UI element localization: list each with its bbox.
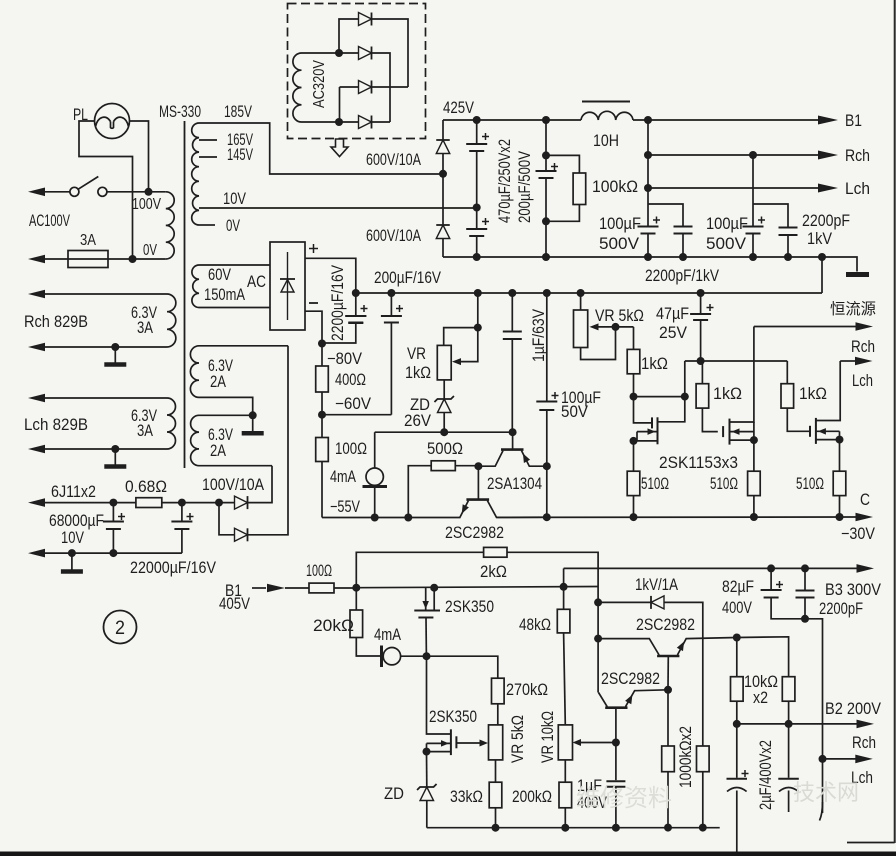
node base/emitter row <box>664 686 672 694</box>
svg-text:Rch: Rch <box>851 338 875 356</box>
svg-text:3A: 3A <box>137 422 153 440</box>
label 4mA (upper) <box>330 468 356 486</box>
capacitor 47uF/25V <box>690 293 713 361</box>
label Lch (bottom) <box>851 769 873 787</box>
capacitor 200uF/16V <box>381 293 403 415</box>
label B2 200V <box>825 700 881 718</box>
wire 10V tap to capacitor midpoint <box>199 207 477 209</box>
ground Rch heater <box>104 347 126 365</box>
wiper VR1k <box>452 328 478 366</box>
label 0V (primary) <box>143 242 157 259</box>
svg-text:Rch: Rch <box>852 734 876 752</box>
capacitor 100uF/50V <box>536 293 558 517</box>
label 185V <box>224 103 252 121</box>
svg-text:2SK350: 2SK350 <box>429 707 477 726</box>
node FET1 gate node <box>630 393 638 401</box>
potentiometer VR 1k <box>437 345 451 380</box>
label 0.68R <box>125 478 167 496</box>
wire 1kV/1A to 1000k <box>664 602 703 746</box>
label 165V <box>227 131 253 149</box>
label 48k <box>519 616 551 634</box>
wire 6.3V2A-1 bottom tap <box>199 397 253 415</box>
arrow 6J11 return rail <box>28 549 182 558</box>
svg-text:145V: 145V <box>227 146 253 164</box>
svg-text:1kV: 1kV <box>807 230 832 248</box>
wire -60V to 200uF bottom <box>322 414 391 416</box>
capacitor 1uF/63V <box>503 293 522 432</box>
svg-text:4mA: 4mA <box>330 468 356 486</box>
node AC320V bottom <box>335 118 343 126</box>
wiper VR5k (upper) <box>590 323 634 330</box>
node Q1 source <box>630 437 638 445</box>
svg-text:恒流源: 恒流源 <box>830 300 876 318</box>
node rail/1uF <box>508 289 516 297</box>
wire -55V rail <box>322 517 461 519</box>
resistor 0.68R <box>136 498 162 508</box>
resistor 100R (bias) <box>316 415 329 518</box>
label 270k <box>506 681 548 699</box>
svg-text:100Ω: 100Ω <box>335 440 367 458</box>
hollow arrow (use this rectifier) <box>331 139 348 157</box>
label 510R (right) <box>796 475 824 493</box>
resistor 2k <box>484 547 507 557</box>
svg-text:VR 5kΩ: VR 5kΩ <box>595 307 644 325</box>
node -80V <box>318 340 326 348</box>
capacitor 2200pF (bottom) <box>796 568 815 618</box>
label -30V <box>841 525 875 543</box>
wire top rail 425V to B1 <box>443 119 820 121</box>
label 6J11x2 <box>51 483 96 501</box>
label 200uF/16V <box>374 269 441 287</box>
label 2200pF/1kV (below rail) <box>645 267 719 285</box>
wire Lch heater bottom <box>28 445 167 454</box>
node 47uF/gate bus <box>697 357 705 365</box>
node Rch heater ground tap <box>111 343 119 351</box>
node 185V feed <box>439 170 447 178</box>
node rail/100uF50V <box>543 289 551 297</box>
svg-text:100kΩ: 100kΩ <box>592 178 638 196</box>
label 100R (input) <box>306 562 332 580</box>
svg-text:100V/10A: 100V/10A <box>202 476 264 494</box>
svg-text:Lch 829B: Lch 829B <box>24 416 88 434</box>
node 200uF16V top <box>387 289 395 297</box>
diode D1 (bridge) <box>359 13 372 26</box>
potentiometer VR 10k <box>558 725 572 782</box>
transistor 2SC2982 (reg upper) <box>598 638 737 690</box>
svg-text:270kΩ: 270kΩ <box>506 681 548 699</box>
label 600V/10A (upper) <box>366 151 421 169</box>
diode 1kV/1A <box>651 596 664 609</box>
wire 2k branch <box>356 552 483 587</box>
svg-text:50V: 50V <box>561 403 588 421</box>
label 500R <box>427 440 463 458</box>
label 10H <box>593 132 619 150</box>
capacitor 470uF/250Vx2 (upper) <box>466 120 489 208</box>
svg-text:维修资料: 维修资料 <box>576 785 672 812</box>
wire Rch rail (top) <box>648 154 820 156</box>
wire lamp right to switch node <box>130 121 149 192</box>
label B1 405V (input) <box>219 582 250 613</box>
heater winding 6.3V 3A Lch <box>167 398 176 449</box>
wire emitter row to 10k right <box>737 637 789 677</box>
wire current source feed <box>374 432 376 468</box>
wire Rch (bottom) <box>823 758 858 760</box>
svg-text:470µF/250Vx2: 470µF/250Vx2 <box>496 139 514 223</box>
label 60V <box>208 266 231 284</box>
wire zener to ground rail <box>426 801 428 828</box>
svg-text:47µF: 47µF <box>656 305 689 323</box>
label Rch (top) <box>845 146 870 165</box>
wire B2 rail <box>737 723 858 725</box>
svg-text:1kV/1A: 1kV/1A <box>635 576 678 594</box>
node return/68000uF <box>109 549 117 557</box>
node 10V midpoint <box>473 204 481 212</box>
pilot lamp PL <box>95 104 130 139</box>
svg-text:60V: 60V <box>208 266 231 284</box>
label MS-330 <box>159 102 201 121</box>
label 2SC2982 (reg lower) <box>601 669 660 688</box>
svg-text:150mA: 150mA <box>204 286 245 304</box>
resistor 1k (mid) <box>696 361 709 408</box>
wire cap-pair1 bridge <box>648 204 683 226</box>
label ZD (lower) <box>384 785 404 803</box>
svg-text:500Ω: 500Ω <box>427 440 463 458</box>
node Lch heater ground tap <box>111 445 119 453</box>
label 100R (bias) <box>335 440 367 458</box>
capacitor 2uF/400V (left) <box>727 724 749 852</box>
node rail/47uF <box>697 289 705 297</box>
label 425V <box>443 99 474 117</box>
svg-text:2A: 2A <box>210 442 226 460</box>
node 0.68R/22000uF <box>178 499 186 507</box>
node bottom rail <box>679 253 687 261</box>
label 510R (left) <box>641 475 669 493</box>
label ZD 26V <box>404 396 431 430</box>
node return/ground <box>68 549 76 557</box>
label 2200pF 1kV (top right) <box>802 212 850 248</box>
resistor 10k (right) <box>782 677 795 724</box>
arrow Lch (top) <box>818 184 838 193</box>
resistor 270k <box>492 678 505 725</box>
label 6.3V 3A (Lch) <box>131 407 157 440</box>
label 600V/10A (lower) <box>366 227 421 245</box>
node 82uF top <box>767 564 775 572</box>
inductor 10H <box>581 102 633 121</box>
label 1uF 400V <box>577 777 607 812</box>
node bottom rail <box>784 253 792 261</box>
wire VR1k to zener <box>443 380 445 399</box>
arrow C output <box>856 513 874 522</box>
node -60V <box>318 411 326 419</box>
node Rch tee <box>644 151 652 159</box>
label 510R (mid) <box>710 475 738 493</box>
svg-text:10H: 10H <box>593 132 619 150</box>
wire Q5 source to zener <box>426 752 428 787</box>
label VR 5k (lower) <box>509 715 527 763</box>
label 6.3V 2A (second) <box>208 426 233 460</box>
svg-text:200µF/16V: 200µF/16V <box>374 269 441 287</box>
svg-text:48kΩ: 48kΩ <box>519 616 551 634</box>
svg-text:20kΩ: 20kΩ <box>313 617 354 635</box>
node B2/10k-right <box>785 720 793 728</box>
label 470uF/250Vx2 <box>496 139 514 223</box>
wire to diode2 <box>219 503 235 535</box>
node -30V rail <box>750 513 758 521</box>
wire B1 rail <box>356 587 598 588</box>
node pair2 tee <box>749 151 757 159</box>
page border right edge <box>894 0 896 843</box>
svg-text:100Ω: 100Ω <box>306 562 332 580</box>
label AC320V <box>311 60 328 108</box>
diode 100V/10A (lower) <box>235 528 248 541</box>
svg-text:510Ω: 510Ω <box>641 475 669 493</box>
figure number circle 2 <box>104 611 137 644</box>
wire VR1k top lead <box>444 328 478 346</box>
wire B3 rail <box>564 567 857 569</box>
wire HV input chain top <box>442 120 444 140</box>
node 2SC2982-2 collector <box>594 635 602 643</box>
label - (rectifier) <box>309 302 318 304</box>
svg-text:1kΩ: 1kΩ <box>641 355 668 373</box>
wire 200uF/16V rail <box>356 292 822 294</box>
svg-text:1000kΩx2: 1000kΩx2 <box>677 726 695 788</box>
svg-text:10V: 10V <box>61 529 84 547</box>
label 100uF 500V (pair1) <box>599 215 641 253</box>
wire B3 rail drop <box>563 568 565 586</box>
diode D4 (bridge) <box>359 116 372 129</box>
node rail/200uF500V <box>542 116 550 124</box>
potentiometer VR 5k (lower) <box>489 725 503 782</box>
label 1kV/1A <box>635 576 678 594</box>
node rail/470uF <box>473 116 481 124</box>
node ground rail <box>612 824 620 832</box>
svg-text:AC100V: AC100V <box>29 212 70 230</box>
label AC <box>247 273 266 291</box>
svg-text:2SK1153x3: 2SK1153x3 <box>659 453 738 472</box>
HV secondary winding 185V <box>192 123 199 225</box>
wire diode to bottom rail <box>442 239 444 258</box>
wire lamp left to fuse row <box>79 121 133 259</box>
svg-text:425V: 425V <box>443 99 474 117</box>
label VR 10k <box>539 711 557 763</box>
resistor 48k <box>557 587 570 725</box>
svg-text:400V: 400V <box>722 599 752 617</box>
svg-text:−30V: −30V <box>841 525 875 543</box>
wire -30V rail <box>497 516 858 518</box>
wire B3 caps to Rch drop <box>805 619 823 813</box>
wire rectifier - output <box>305 311 322 343</box>
wire Lch output tail <box>820 802 895 843</box>
node rail/choke out <box>644 116 652 124</box>
wiper VR10k <box>573 739 616 746</box>
wire switch to transformer primary <box>107 191 166 193</box>
wire x598 bus lower <box>597 639 599 693</box>
svg-text:6J11x2: 6J11x2 <box>51 483 96 501</box>
svg-text:MS-330: MS-330 <box>159 102 201 121</box>
wire 6.3V2A-2 bottom tap <box>199 465 272 467</box>
MOSFET 2SK1153 Q1 <box>634 397 685 445</box>
svg-text:100µF: 100µF <box>706 215 748 233</box>
resistor 1000k (left) <box>662 690 675 828</box>
wire diode2 out <box>248 346 289 535</box>
svg-text:0V: 0V <box>143 242 157 259</box>
svg-text:Rch: Rch <box>845 146 870 165</box>
svg-text:2200µF/16V: 2200µF/16V <box>329 265 347 341</box>
svg-text:技术网: 技术网 <box>793 780 859 805</box>
faint watermark <box>576 780 859 812</box>
svg-text:2200pF: 2200pF <box>802 212 850 230</box>
wire Rch (mid) output <box>840 360 856 362</box>
dashed box AC320V option <box>288 4 426 139</box>
label 200uF/500V <box>516 151 534 223</box>
svg-text:0V: 0V <box>226 217 240 235</box>
node Q4 drain <box>430 584 438 592</box>
resistor 510R (right) <box>833 440 846 517</box>
svg-text:B3 300V: B3 300V <box>825 581 881 599</box>
wire diode1 out <box>248 466 273 503</box>
MOSFET 2SK350 Q4 <box>414 588 440 657</box>
svg-text:AC: AC <box>247 273 266 291</box>
label 10V <box>223 190 246 208</box>
svg-text:2200pF: 2200pF <box>819 600 863 618</box>
capacitor 2uF/400V (right) <box>778 724 799 812</box>
node 4mA/rail <box>371 514 379 522</box>
label 2uF/400Vx2 <box>757 740 775 810</box>
MOSFET 2SK350 Q5 <box>427 656 489 755</box>
resistor 100k <box>546 155 586 221</box>
svg-text:600V/10A: 600V/10A <box>366 151 421 169</box>
svg-text:0.68Ω: 0.68Ω <box>125 478 167 496</box>
svg-text:2SC2982: 2SC2982 <box>445 523 504 542</box>
power switch S <box>70 177 107 197</box>
wire 0.68R to diode node <box>162 502 235 504</box>
wire to 270k <box>427 656 498 678</box>
resistor 500R <box>408 461 478 518</box>
label 2k <box>480 563 507 581</box>
resistor 100R (input) <box>309 583 334 593</box>
capacitor 82uF/400V <box>761 568 805 618</box>
wire Lch rail (top) <box>648 187 820 189</box>
node bottom rail <box>644 253 652 261</box>
wire D1 to right rail <box>372 19 409 87</box>
capacitor 100uF/500V (pair2) <box>743 217 766 258</box>
node rail/VR1k <box>474 289 482 297</box>
resistor 1k (right) <box>781 361 794 408</box>
wire zener to bias bus <box>443 413 445 433</box>
wire Rch cap branch <box>752 155 754 226</box>
svg-text:2kΩ: 2kΩ <box>480 563 507 581</box>
svg-text:10V: 10V <box>223 190 246 208</box>
label PL <box>73 106 88 124</box>
winding AC320V <box>293 53 302 122</box>
node bottom rail <box>818 253 826 261</box>
svg-text:2: 2 <box>115 618 125 639</box>
resistor 33k <box>489 782 502 828</box>
svg-text:1kΩ: 1kΩ <box>799 385 827 403</box>
arrow Rch (top) <box>818 151 838 160</box>
fuse 3A <box>44 251 166 268</box>
arrow constant-current <box>856 322 874 331</box>
label Rch (bottom) <box>852 734 876 752</box>
wire regulator ground rail <box>427 827 720 829</box>
label 0V (secondary) <box>226 217 240 235</box>
ground center tap <box>242 415 264 433</box>
node B3 tap <box>560 583 568 591</box>
svg-text:Lch: Lch <box>845 179 870 198</box>
transformer MS-330 primary winding 100V-0V <box>166 192 174 259</box>
label 100uF 50V <box>561 389 601 421</box>
diode 600V/10A (lower) <box>436 225 450 239</box>
svg-text:100V: 100V <box>132 196 161 213</box>
wire 60V tap upper <box>199 264 270 266</box>
transistor 2SC2982 (series-1) <box>460 466 547 517</box>
winding 6.3V 2A (second) <box>191 415 199 465</box>
node cap bottoms <box>801 615 809 623</box>
AC100V line arrow (lower) <box>28 255 45 264</box>
label C <box>860 491 870 509</box>
node 2k/1kV1A tee <box>594 598 602 606</box>
zener diode ZD (lower) <box>417 784 437 801</box>
wire 185V tap <box>199 123 443 174</box>
capacitor 2200pF/1kV (pair1) <box>674 227 693 258</box>
arrow Rch (mid) <box>855 357 873 366</box>
wire rectifier + output <box>305 258 356 293</box>
arrow B2 <box>857 720 875 729</box>
wire Rch heater bottom <box>28 343 167 352</box>
resistor 510R (mid) <box>748 440 761 517</box>
resistor 200k <box>559 782 572 828</box>
svg-text:3A: 3A <box>137 319 153 337</box>
resistor 1000k (right) <box>697 746 710 828</box>
node 500R/rail <box>404 514 412 522</box>
label 3A <box>80 232 96 249</box>
node bottom rail <box>542 253 550 261</box>
label VR 5k (upper) <box>595 307 644 325</box>
bridge rectifier block AC <box>270 242 305 330</box>
AC100V line arrow (upper) <box>28 188 70 197</box>
label Lch (mid) <box>852 372 873 390</box>
node VR1k wiper tee <box>474 324 482 332</box>
wire 2k out <box>507 552 598 602</box>
wire x598 bus <box>597 602 599 638</box>
node B1 rail left <box>352 584 360 592</box>
label 1k (left) <box>641 355 668 373</box>
svg-text:2µF/400Vx2: 2µF/400Vx2 <box>757 740 775 810</box>
resistor 400R <box>316 344 329 415</box>
svg-text:2SC2982: 2SC2982 <box>601 669 660 688</box>
node center tap <box>249 411 257 419</box>
wire Rch heater top <box>28 290 167 299</box>
label Rch (mid) <box>851 338 875 356</box>
svg-text:25V: 25V <box>659 324 687 342</box>
capacitor 200uF/500V <box>536 120 559 257</box>
wire to diode D4 <box>339 121 359 123</box>
label B3 300V <box>825 581 881 599</box>
label -80V <box>327 350 362 368</box>
label 68000uF 10V <box>49 512 104 547</box>
svg-text:33kΩ: 33kΩ <box>450 788 483 806</box>
node diode tap <box>215 499 223 507</box>
MOSFET 2SK1153 Q2 <box>702 327 754 445</box>
label 2SK350 (lower) <box>429 707 477 726</box>
diode D2 (bridge) <box>359 47 372 60</box>
label -55V <box>330 498 360 516</box>
label 145V <box>227 146 253 164</box>
resistor 10k (left) <box>731 638 744 724</box>
MOSFET 2SK1153 Q3 <box>787 361 840 444</box>
node Q3 source <box>836 436 844 444</box>
resistor 510R (left) <box>627 441 640 517</box>
